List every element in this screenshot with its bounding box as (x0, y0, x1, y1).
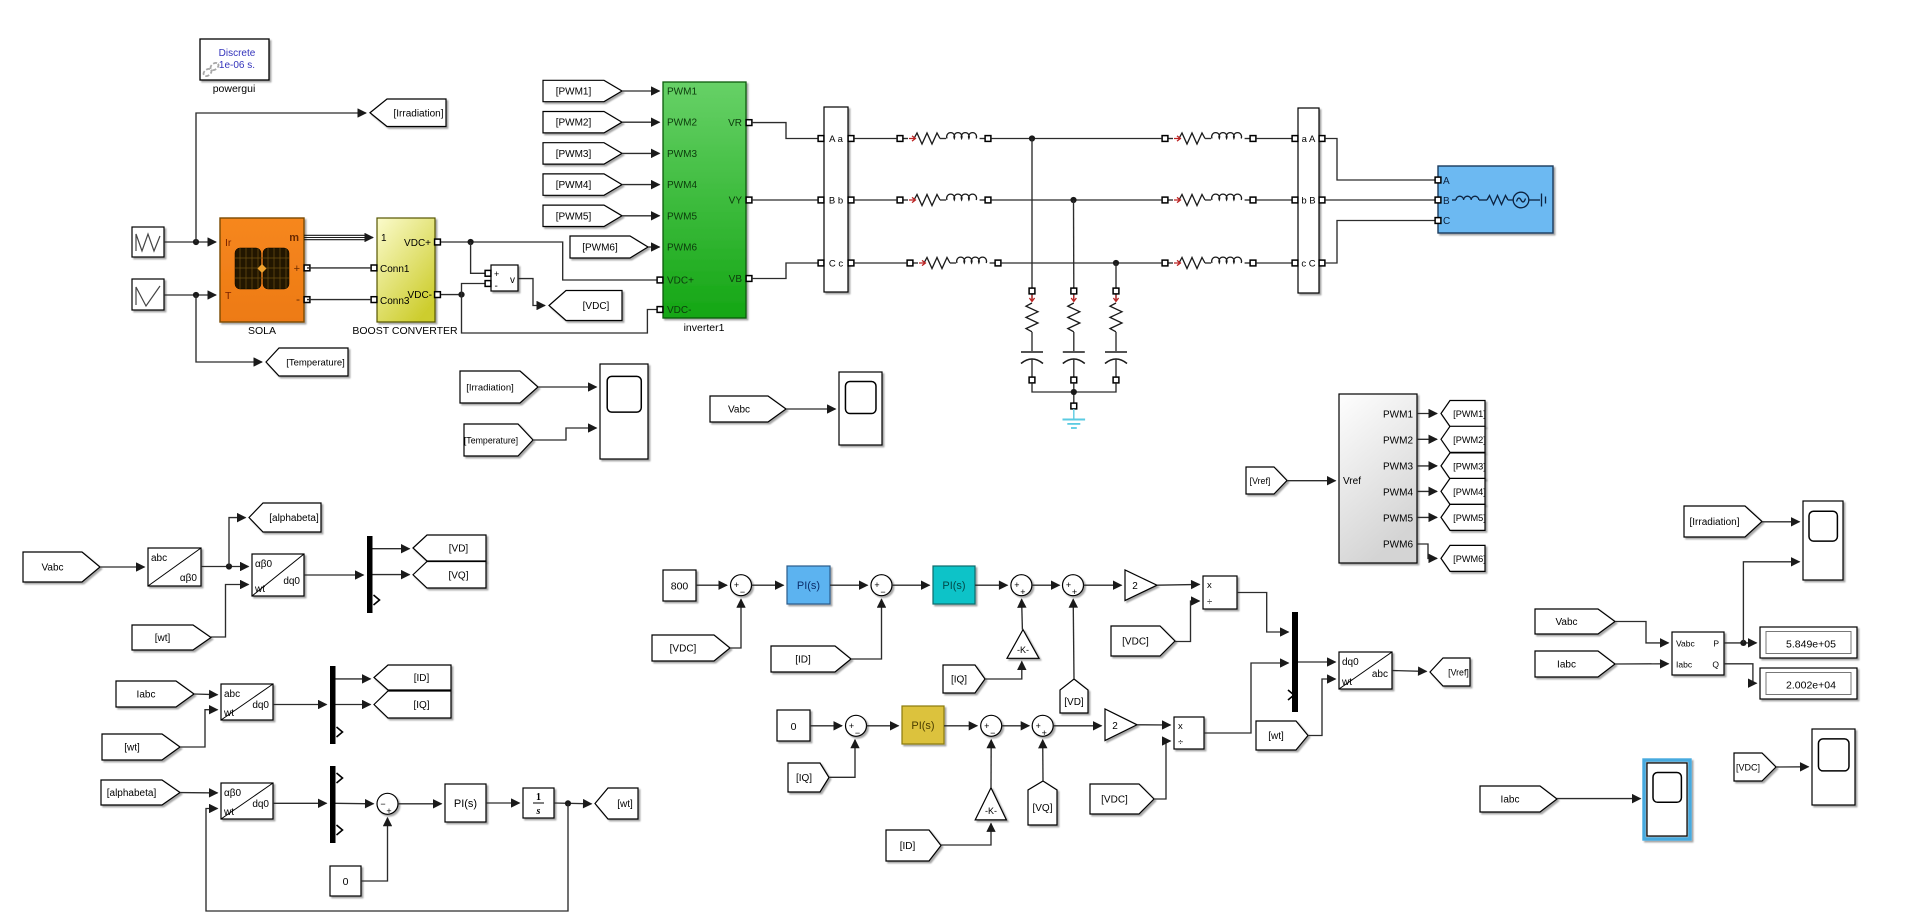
svg-text:+: + (1014, 580, 1019, 590)
svg-text:[VDC]: [VDC] (1122, 637, 1149, 648)
wire VB to meas1 Cc (752, 263, 818, 279)
svg-text:b B: b B (1301, 196, 1315, 207)
constant block 800 (663, 570, 696, 601)
svg-text:PWM4: PWM4 (1383, 488, 1413, 499)
svg-text:[VQ]: [VQ] (448, 570, 468, 581)
wire Vref to subsystem (1287, 480, 1336, 482)
product block 1 (x/) (1203, 576, 1237, 609)
demux1 unconnected chevron (374, 595, 380, 605)
wire demux1 to VD (373, 548, 410, 550)
shunt RC branch 2 (1063, 288, 1085, 383)
wire [PWM3] to inverter PWM3 (622, 152, 660, 154)
svg-text:B b: B b (829, 196, 843, 207)
series RLC branch B2 (1162, 194, 1256, 205)
junction phase C shunt (1113, 260, 1119, 266)
wire dq0-abc to Vref goto (1392, 670, 1427, 673)
svg-text:PWM5: PWM5 (1383, 514, 1413, 525)
svg-text:[PWM4]: [PWM4] (556, 180, 592, 191)
sum block PLL (377, 793, 398, 816)
series RLC branch C1 (907, 257, 1001, 268)
svg-text:C c: C c (829, 259, 844, 270)
wire sum1 to PI blue (752, 584, 784, 586)
svg-text:1: 1 (536, 792, 541, 803)
goto tag [Vref] (1430, 658, 1470, 686)
svg-text:v: v (510, 275, 515, 286)
wire [PWM6] to inverter PWM6 (648, 246, 660, 248)
wire Irradiation to scope3 (1762, 521, 1800, 523)
wire subsystem PWM2 to goto (1417, 438, 1437, 440)
svg-text:[Temperature]: [Temperature] (464, 436, 518, 446)
wire demux1 to VQ (373, 574, 410, 576)
goto tag [ID] (374, 665, 451, 690)
svg-text:[PWM4]: [PWM4] (1453, 487, 1486, 497)
scope block right (Irradiation/P) (1803, 501, 1843, 580)
powergui block (200, 39, 269, 80)
wire ab0-dq0 to demux1 (304, 574, 364, 576)
svg-text:PWM5: PWM5 (667, 211, 697, 222)
junction alphabeta (226, 563, 232, 569)
source B port (1435, 197, 1441, 203)
wire PI blue to sum2 (830, 584, 868, 586)
meas1 right port y200 (848, 197, 854, 203)
svg-text:[Vref]: [Vref] (1448, 668, 1469, 678)
svg-text:s: s (536, 806, 541, 817)
svg-text:+: + (984, 721, 989, 731)
wire Vabc to abc-ab0 (100, 566, 145, 568)
shunt bottom bus (1032, 383, 1116, 392)
wire [PWM5] to inverter PWM5 (622, 215, 660, 217)
svg-text:P: P (1713, 638, 1719, 648)
svg-text:+: + (494, 269, 499, 279)
svg-text:−: − (740, 587, 745, 597)
from tag Vabc right (1535, 609, 1615, 634)
wire IQ into sum5 (829, 740, 855, 778)
wire SOLA - to Conn3 (307, 299, 371, 301)
wire Iabc to power block (1615, 663, 1669, 665)
voltmeter - port (485, 281, 491, 287)
shunt 2 to ground node (1073, 383, 1075, 403)
goto tag [PWM4] (1441, 478, 1486, 504)
from tag Vabc mid (710, 396, 786, 422)
svg-text:+: + (294, 263, 300, 275)
svg-text:÷: ÷ (1178, 737, 1183, 748)
wire ab0-dq0 b to demux3 (273, 802, 327, 804)
goto tag [VQ] (413, 562, 486, 589)
svg-text:-K-: -K- (985, 806, 997, 816)
svg-text:BOOST CONVERTER: BOOST CONVERTER (352, 325, 458, 337)
svg-text:[Vref]: [Vref] (1250, 476, 1271, 486)
svg-text:PWM2: PWM2 (1383, 436, 1413, 447)
svg-text:[VD]: [VD] (1064, 697, 1084, 708)
svg-text:2: 2 (1112, 721, 1118, 732)
wire meas1 a to RL A1 (854, 138, 897, 140)
wire abc-dq0 to demux2 (273, 704, 327, 706)
goto tag [alphabeta] (249, 503, 321, 532)
goto tag [PWM6] (1441, 545, 1486, 571)
inverter VDC+ port (657, 277, 663, 283)
vector wire SOLA m to BOOST input 1 (304, 235, 366, 239)
wire PI gold to sum6 (944, 725, 977, 727)
junction phase A shunt (1029, 135, 1035, 141)
SOLA - output port (304, 297, 310, 303)
wire alphabeta to ab0-dq0 b (180, 792, 218, 794)
svg-text:inverter1: inverter1 (684, 322, 725, 334)
svg-text:2: 2 (1132, 581, 1138, 592)
wire SOLA + to Conn1 (307, 267, 371, 269)
svg-text:m: m (289, 232, 299, 244)
wire Q to display 2 (1724, 664, 1757, 683)
svg-text:dq0: dq0 (252, 700, 269, 711)
meas2 left port y263 (1292, 260, 1298, 266)
svg-text:-: - (296, 292, 300, 306)
svg-text:dq0: dq0 (1342, 657, 1359, 668)
svg-text:[VQ]: [VQ] (1032, 803, 1052, 814)
svg-text:[ID]: [ID] (414, 673, 430, 684)
wire integrator to wt goto (554, 802, 592, 805)
wire VDC- to inverter VDC- (462, 295, 657, 333)
wire gain 2a to product 1 (1157, 583, 1200, 586)
PI controller block cyan (933, 566, 975, 604)
svg-text:[Temperature]: [Temperature] (286, 358, 345, 369)
wire mux to dq0-abc (1298, 661, 1336, 663)
repeating sequence source T (132, 279, 164, 310)
sum block 5 (846, 715, 867, 738)
svg-text:Iabc: Iabc (1676, 659, 1693, 669)
wire meas2 aA to source A (1325, 139, 1434, 181)
BOOST VDC+ port (435, 239, 441, 245)
from tag [Irradiation] mid (460, 371, 538, 403)
from tag Iabc right (1535, 651, 1615, 677)
wire VY to meas1 Bb (752, 199, 818, 201)
svg-text:Iabc: Iabc (1501, 795, 1520, 806)
series RLC branch B1 (897, 194, 991, 205)
from tag [Temperature] mid (464, 424, 533, 456)
junction on VDC- wire (458, 292, 464, 298)
wire meas2 bB to source B (1325, 199, 1434, 201)
svg-text:5.849e+05: 5.849e+05 (1786, 638, 1836, 650)
svg-text:PWM3: PWM3 (1383, 462, 1413, 473)
phase A line mid (991, 138, 1162, 140)
from tag [ID] c1 (771, 646, 851, 672)
svg-text:[PWM2]: [PWM2] (556, 118, 592, 129)
BOOST VDC- port (435, 292, 441, 298)
wire sum3 to sum4 (1032, 584, 1060, 586)
from tag [Irradiation] right (1684, 506, 1762, 537)
svg-text:wt: wt (254, 584, 265, 595)
constant block 0 (PLL) (330, 866, 361, 896)
from tag [IQ] c2 (788, 763, 829, 792)
wire subsystem PWM5 to goto (1417, 516, 1437, 518)
svg-text:+: + (1066, 580, 1071, 590)
series RLC branch A2 (1162, 133, 1256, 144)
demux2 unconnected chevron (337, 727, 343, 737)
wire meas1 b to RL B1 (854, 199, 897, 201)
svg-text:dq0: dq0 (283, 576, 300, 587)
junction on Ir wire (193, 239, 199, 245)
svg-text:−: − (880, 587, 885, 597)
scope block VDC (1812, 729, 1855, 805)
repeating sequence source Ir (132, 227, 164, 257)
from tag [VDC] right (1734, 753, 1776, 781)
from tag [PWM5] (543, 205, 622, 226)
svg-text:-K-: -K- (1017, 645, 1029, 655)
wire IQ to -K- gain 1 (985, 662, 1022, 680)
goto tag [PWM1] (1441, 401, 1486, 427)
from tag [VDC] c1 (652, 635, 730, 661)
svg-text:[IQ]: [IQ] (951, 675, 967, 686)
voltmeter + port (485, 270, 491, 276)
wire RL C2 to meas2 cC (1256, 262, 1295, 264)
wire P to display 1 (1724, 642, 1757, 644)
junction wt feedback (565, 800, 571, 806)
from tag [wt] 2 (102, 734, 180, 760)
display block Q value (1760, 668, 1857, 699)
wire VDC up into sum1 (730, 599, 741, 648)
wire sum to PI (398, 803, 442, 805)
svg-text:wt: wt (223, 708, 234, 719)
svg-text:[PWM3]: [PWM3] (1453, 461, 1486, 471)
scope block (Irradiation/Temperature) (600, 364, 648, 459)
demux 3 (330, 766, 336, 843)
wire 800 to sum1 (696, 584, 727, 586)
wire junction to alphabeta goto (229, 518, 246, 567)
goto tag [PWM2] (1441, 426, 1486, 452)
from tag [VDC] c3 (1090, 784, 1154, 814)
svg-text:c C: c C (1301, 259, 1315, 270)
junction P (1740, 640, 1746, 646)
svg-text:PWM1: PWM1 (1383, 410, 1413, 421)
svg-text:PI(s): PI(s) (454, 798, 477, 810)
wire product 1 to mux (1237, 593, 1289, 633)
demux 2 (330, 666, 336, 744)
svg-text:+: + (1020, 587, 1025, 597)
svg-text:[PWM6]: [PWM6] (1453, 554, 1486, 564)
svg-text:[wt]: [wt] (124, 743, 140, 754)
wire phase B down to shunt RC 2 (1073, 200, 1075, 288)
wire ID to -K-2 (941, 823, 991, 845)
goto tag [PWM5] (1441, 504, 1486, 530)
ground symbol (1063, 409, 1086, 428)
svg-text:−: − (380, 799, 385, 809)
svg-text:Iabc: Iabc (137, 690, 156, 701)
svg-text:[VD]: [VD] (449, 544, 469, 555)
transform block abc to alphabeta0 (148, 548, 201, 586)
svg-text:[PWM6]: [PWM6] (582, 243, 618, 254)
svg-text:VDC+: VDC+ (667, 276, 694, 287)
PV array block SOLA (220, 218, 304, 322)
wire Vabc to power block (1615, 622, 1669, 643)
inverter1 block (663, 82, 746, 318)
goto tag [IQ] (374, 691, 451, 718)
transform block ab0 to dq0 (V) (252, 554, 304, 596)
meas1 right port y138.5 (848, 136, 854, 142)
wire ID into sum2 (851, 599, 882, 659)
svg-text:VR: VR (728, 118, 742, 129)
three-phase VI measurement block 1 (824, 107, 848, 292)
svg-text:[wt]: [wt] (1268, 731, 1284, 742)
sum block 6 (981, 715, 1002, 738)
svg-text:+: + (849, 721, 854, 731)
svg-text:wt: wt (223, 807, 234, 818)
wire wt to abc-dq0 wt (180, 710, 218, 747)
svg-text:[IQ]: [IQ] (796, 773, 812, 784)
wire VDC- junction to voltmeter - (462, 284, 485, 295)
from tag [IQ] c1 (943, 665, 985, 693)
meas2 left port y200 (1292, 197, 1298, 203)
svg-text:dq0: dq0 (252, 799, 269, 810)
svg-text:αβ0: αβ0 (255, 559, 273, 570)
wire wt to ab0-dq0 wt (211, 585, 249, 638)
svg-text:PWM6: PWM6 (667, 243, 697, 254)
svg-text:PWM2: PWM2 (667, 118, 697, 129)
wire RL B2 to meas2 bB (1256, 199, 1295, 201)
demux 1 (367, 536, 373, 613)
wire wt to dq0-abc wt (1308, 679, 1336, 736)
svg-text:powergui: powergui (213, 83, 256, 95)
svg-text:+: + (1042, 728, 1047, 738)
sum block 2 (871, 575, 892, 598)
meas2 left port y138.5 (1292, 136, 1298, 142)
wire sum2 to PI cyan (892, 584, 930, 586)
from tag Vabc left (23, 552, 100, 582)
mux dq0 (1292, 612, 1298, 712)
wire abc-ab0 to ab0-dq0 (201, 566, 249, 568)
from tag [VD] up (1060, 679, 1088, 713)
svg-text:[PWM3]: [PWM3] (556, 149, 592, 160)
svg-text:PI(s): PI(s) (797, 580, 820, 592)
wire demux2 to ID (336, 678, 371, 680)
from tag [wt] c3 (1256, 721, 1308, 750)
wire product 2 to mux (1204, 663, 1289, 733)
power measurement block PQ (1672, 632, 1724, 675)
scope block Iabc (selected) (1644, 760, 1690, 839)
wire sum6 to sum7 (1002, 725, 1029, 727)
svg-text:PI(s): PI(s) (942, 580, 965, 592)
wire VR to meas1 Aa (752, 123, 818, 139)
inverter VY port (746, 197, 752, 203)
svg-text:wt: wt (1341, 677, 1352, 688)
wire PI to integrator (486, 802, 520, 804)
svg-text:[VDC]: [VDC] (583, 301, 610, 312)
svg-text:[VDC]: [VDC] (670, 644, 697, 655)
meas1 left port y138.5 (818, 136, 824, 142)
shunt RC branch 3 (1105, 288, 1127, 383)
constant block 0 (Q loop) (777, 710, 810, 741)
wire Irradiation to scope1 (538, 386, 597, 388)
gain block -K- 2 (975, 788, 1006, 820)
goto tag [Irradiation] top (370, 99, 446, 127)
svg-text:Vabc: Vabc (41, 563, 63, 574)
from tag [PWM3] (543, 143, 622, 164)
from tag [wt] 1 (132, 625, 211, 650)
phase C line mid (1001, 262, 1162, 264)
wire Temperature to scope1 (533, 428, 597, 440)
wire to Irradiation goto (196, 113, 366, 242)
svg-text:Vabc: Vabc (1555, 617, 1577, 628)
source C port (1435, 218, 1441, 224)
svg-text:VDC-: VDC- (408, 290, 432, 301)
PI controller block blue (787, 566, 830, 604)
phase B line mid (991, 199, 1162, 201)
PI controller block PLL (445, 784, 486, 822)
sum block 7 (1032, 715, 1053, 738)
goto tag [VD] (413, 535, 486, 561)
wire meas1 c to RL C1 (854, 262, 907, 264)
demux3 chevron top (337, 773, 343, 783)
display block P value (1760, 627, 1857, 658)
scope block Vabc (839, 372, 882, 445)
svg-text:Iabc: Iabc (1557, 660, 1576, 671)
wire VDC to product 1 divisor (1175, 601, 1200, 642)
svg-text:−: − (855, 728, 860, 738)
wire gain 2b to product 2 (1137, 724, 1171, 726)
wire [PWM2] to inverter PWM2 (622, 121, 660, 123)
meas1 right port y263 (848, 260, 854, 266)
svg-text:0: 0 (343, 876, 349, 888)
svg-text:1: 1 (381, 233, 387, 244)
svg-text:[PWM1]: [PWM1] (556, 87, 592, 98)
sum block 1 (Vdc) (731, 575, 752, 598)
svg-text:B: B (1443, 196, 1450, 207)
svg-text:−: − (990, 728, 995, 738)
feedback wire wt to PLL block (206, 803, 568, 911)
shunt RC branch 1 (1021, 288, 1043, 383)
meas1 left port y263 (818, 260, 824, 266)
goto tag [PWM3] (1441, 453, 1486, 479)
svg-text:+: + (734, 580, 739, 590)
transform block abc to dq0 (I) (221, 684, 273, 720)
svg-text:[Irradiation]: [Irradiation] (1689, 517, 1739, 528)
meas2 right port y200 (1319, 197, 1325, 203)
from tag [PWM6] (570, 236, 648, 258)
wire BOOST VDC+ to inverter VDC+ (441, 242, 657, 280)
meas2 right port y263 (1319, 260, 1325, 266)
svg-text:A: A (1443, 176, 1450, 187)
svg-text:Ir: Ir (225, 237, 232, 249)
sum block 3 (1011, 575, 1032, 598)
wire Vabc to scope2 (786, 408, 836, 410)
wire VDC to scope5 (1776, 766, 1809, 768)
inverter VR port (746, 120, 752, 126)
from tag [PWM2] (543, 112, 622, 133)
from tag [alphabeta] left (101, 780, 180, 805)
svg-text:x: x (1207, 580, 1212, 591)
svg-text:+: + (386, 806, 391, 816)
svg-text:[Irradiation]: [Irradiation] (393, 108, 443, 119)
from tag [Vref] (1246, 467, 1287, 494)
svg-text:Vref: Vref (1343, 476, 1361, 487)
wire BOOST VDC- out (441, 294, 462, 296)
wire sum7 to gain 2b (1053, 725, 1101, 727)
transform block ab0 to dq0 (PLL) (221, 783, 273, 819)
wire sum5 to PI gold (867, 725, 899, 727)
goto tag [Temperature] (266, 348, 348, 376)
wire P to scope3 input2 (1743, 562, 1799, 643)
junction on T wire (193, 292, 199, 298)
voltage measurement block v (491, 265, 518, 292)
wire meas2 cC to source C (1325, 221, 1434, 264)
svg-text:[Irradiation]: [Irradiation] (466, 383, 514, 394)
from tag [VQ] up (1028, 781, 1057, 825)
svg-text:VDC+: VDC+ (404, 238, 431, 249)
svg-text:VDC-: VDC- (667, 305, 691, 316)
wire subsystem PWM1 to goto (1417, 413, 1437, 415)
wire PI cyan to sum3 (975, 584, 1007, 586)
BOOST CONVERTER block (377, 218, 435, 322)
svg-text:αβ0: αβ0 (180, 573, 198, 584)
wire subsystem PWM6 to goto (1417, 544, 1437, 558)
mux unconnected chevron (1288, 690, 1294, 700)
